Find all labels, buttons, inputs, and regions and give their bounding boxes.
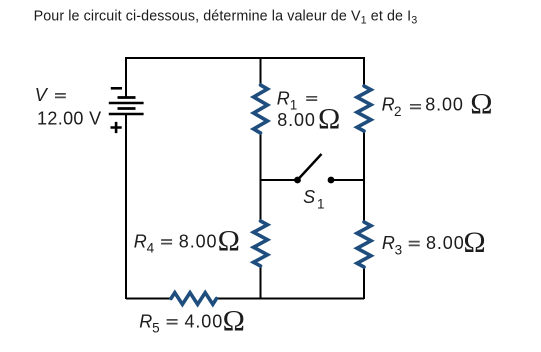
equals of R3 — [409, 242, 420, 246]
svg-text:R: R — [139, 311, 152, 331]
svg-text:S: S — [303, 187, 315, 207]
wire top — [126, 57, 364, 59]
svg-text:R: R — [382, 95, 395, 115]
wire middle between R1 and R4 — [260, 133, 262, 221]
svg-text:8.00: 8.00 — [179, 231, 218, 251]
resistor R5 — [171, 293, 217, 305]
equals of V — [55, 94, 66, 98]
wire middle below R4 — [260, 266, 262, 299]
resistor R4 — [254, 221, 268, 266]
svg-text:Ω: Ω — [470, 88, 492, 121]
wire switch right segment — [331, 179, 364, 181]
wire bottom right of R5 — [217, 298, 365, 300]
battery plus sign — [111, 122, 122, 133]
svg-text:3: 3 — [395, 242, 403, 257]
svg-text:Ω: Ω — [318, 103, 340, 136]
battery minus sign — [111, 87, 122, 90]
resistor R3 — [357, 222, 371, 267]
svg-text:R: R — [382, 233, 395, 253]
switch S1 right contact dot — [328, 177, 335, 184]
wire right above R2 — [363, 57, 365, 86]
svg-text:8.00: 8.00 — [426, 233, 465, 253]
svg-text:4.00: 4.00 — [185, 311, 224, 331]
svg-text:V: V — [35, 85, 49, 105]
wire middle above R1 — [260, 57, 262, 85]
equals of R4 — [161, 240, 172, 244]
wire left upper to battery — [125, 57, 127, 97]
svg-text:8.00: 8.00 — [425, 95, 464, 115]
svg-text:Ω: Ω — [223, 305, 245, 338]
battery V: plates — [109, 98, 144, 115]
svg-text:4: 4 — [147, 241, 155, 256]
switch S1 lever — [298, 154, 322, 180]
resistor R2 — [357, 86, 371, 131]
svg-text:Ω: Ω — [218, 225, 240, 258]
svg-text:5: 5 — [152, 321, 160, 336]
resistor R1 — [254, 85, 268, 133]
svg-text:2: 2 — [394, 104, 402, 119]
equals of R5 — [167, 320, 178, 324]
equals of R1 — [306, 97, 317, 100]
wire switch left segment — [261, 179, 298, 181]
svg-text:12.00 V: 12.00 V — [37, 109, 102, 129]
switch S1 left contact dot — [294, 177, 301, 184]
svg-text:1: 1 — [317, 197, 325, 212]
svg-text:8.00: 8.00 — [277, 110, 316, 130]
wire right between R2 and R3 — [363, 131, 365, 222]
wire left lower from battery — [125, 114, 127, 299]
svg-text:Pour le circuit ci-dessous, dé: Pour le circuit ci-dessous, détermine la… — [34, 8, 418, 26]
svg-text:R: R — [134, 231, 147, 251]
svg-text:R: R — [277, 89, 290, 109]
wire right below R3 — [363, 267, 365, 299]
wire bottom left of R5 — [126, 298, 171, 300]
svg-text:Ω: Ω — [463, 226, 485, 259]
equals of R2 — [410, 105, 421, 109]
